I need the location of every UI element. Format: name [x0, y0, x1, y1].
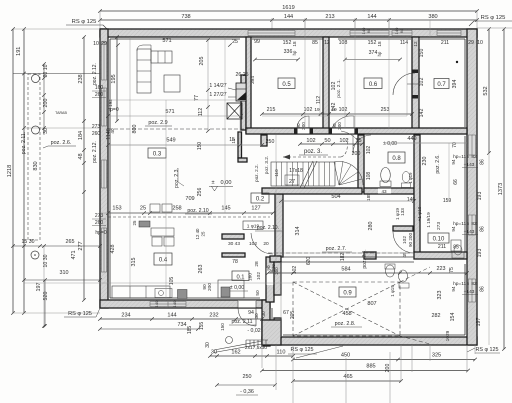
wall W2 left of 0.5 — [246, 37, 251, 133]
svg-text:94: 94 — [451, 226, 456, 232]
svg-text:211: 211 — [441, 40, 449, 46]
bottom 885 row — [262, 370, 468, 372]
svg-text:30: 30 — [254, 313, 260, 319]
svg-text:102: 102 — [331, 82, 337, 91]
wall H4 stub left — [270, 256, 281, 262]
wall H2b below 0.8 — [364, 188, 414, 194]
room label 0.2 — [251, 193, 269, 203]
svg-text:314: 314 — [295, 227, 301, 236]
door gap W6c — [267, 268, 274, 285]
svg-text:260: 260 — [92, 131, 101, 137]
svg-text:200: 200 — [271, 264, 276, 272]
terrace glass door line — [281, 256, 414, 258]
svg-text:1 14/27: 1 14/27 — [209, 83, 226, 89]
dim row y211 — [108, 212, 273, 214]
svg-text:532: 532 — [483, 86, 489, 95]
svg-text:182: 182 — [340, 253, 346, 262]
svg-text:571: 571 — [165, 109, 174, 115]
bottom row 234/144/232 — [100, 318, 262, 320]
svg-text:hp=115: hp=115 — [453, 221, 469, 227]
svg-text:260: 260 — [95, 220, 104, 226]
svg-text:30 43: 30 43 — [228, 241, 240, 247]
wall pantry top stub — [222, 234, 244, 239]
svg-text:94: 94 — [451, 159, 456, 165]
stairs walk line — [283, 156, 341, 158]
window left w2 — [102, 88, 107, 126]
wall W6b kitchen/hall — [275, 194, 283, 257]
svg-text:90 200: 90 200 — [408, 233, 413, 247]
svg-text:185: 185 — [187, 326, 193, 335]
svg-text:30: 30 — [205, 342, 211, 348]
door jambs H1 — [294, 128, 298, 134]
door arc room 0.5 — [297, 116, 309, 128]
svg-text:0.7: 0.7 — [437, 82, 446, 88]
svg-text:2x17,5x30: 2x17,5x30 — [245, 345, 267, 351]
svg-text:± 0,00: ± 0,00 — [230, 285, 244, 291]
window top w3 — [350, 31, 389, 36]
flue block — [236, 83, 246, 101]
svg-text:152: 152 — [283, 40, 292, 46]
wall W4 0.6/0.7 — [412, 37, 419, 130]
svg-text:RS φ 125: RS φ 125 — [291, 347, 314, 353]
svg-text:0.5: 0.5 — [282, 82, 291, 88]
svg-text:1140: 1140 — [106, 128, 112, 140]
svg-text:12: 12 — [324, 40, 330, 46]
stairs winder fan — [334, 161, 363, 185]
svg-text:205: 205 — [290, 311, 296, 320]
svg-text:112: 112 — [198, 108, 204, 117]
svg-text:0,00: 0,00 — [221, 180, 232, 186]
svg-text:211: 211 — [438, 244, 446, 250]
inner plaster lines — [110, 38, 240, 40]
radiator kitchen top — [139, 221, 150, 227]
svg-text:29: 29 — [468, 40, 474, 46]
svg-text:+143: +143 — [464, 289, 475, 295]
window right w1 — [469, 135, 476, 155]
svg-text:102: 102 — [339, 107, 348, 113]
svg-text:TARAB: TARAB — [55, 111, 67, 115]
svg-text:12: 12 — [413, 41, 418, 47]
svg-text:99: 99 — [254, 39, 260, 45]
dimension chain top segments — [100, 19, 477, 21]
svg-text:86: 86 — [480, 159, 486, 165]
svg-text:86: 86 — [480, 226, 486, 232]
svg-text:+1 φ10: +1 φ10 — [417, 206, 422, 221]
svg-text:159: 159 — [443, 198, 452, 204]
table and chairs — [151, 228, 174, 236]
svg-text:200: 200 — [337, 122, 342, 130]
svg-text:253: 253 — [381, 107, 390, 113]
svg-text:584: 584 — [341, 267, 350, 273]
svg-text:1218: 1218 — [7, 165, 13, 177]
chairs — [150, 204, 160, 212]
svg-text:1 19/19: 1 19/19 — [426, 212, 431, 228]
entry door arc — [255, 308, 257, 326]
svg-text:144: 144 — [284, 14, 293, 20]
svg-text:162: 162 — [231, 350, 240, 356]
window top w5 — [437, 31, 461, 36]
room label 0.4 — [154, 253, 172, 265]
svg-text:- 0,02: - 0,02 — [247, 328, 260, 334]
svg-text:273: 273 — [436, 222, 442, 230]
wall outer right — [467, 29, 477, 345]
wall H1 under top rooms — [246, 128, 467, 134]
svg-text:28: 28 — [254, 261, 260, 267]
svg-text:310: 310 — [60, 270, 69, 276]
svg-text:152: 152 — [368, 40, 377, 46]
svg-text:238: 238 — [78, 74, 84, 83]
svg-text:830: 830 — [33, 161, 39, 170]
svg-text:150: 150 — [419, 49, 425, 58]
svg-text:142: 142 — [331, 103, 337, 112]
svg-text:323: 323 — [437, 291, 443, 300]
svg-text:20: 20 — [263, 241, 269, 247]
svg-text:± 0,00: ± 0,00 — [383, 141, 397, 147]
room label 0.9 — [339, 287, 356, 297]
svg-text:110: 110 — [277, 350, 286, 356]
svg-text:102: 102 — [292, 266, 298, 275]
svg-text:258: 258 — [172, 206, 181, 212]
svg-text:RS φ 125: RS φ 125 — [476, 347, 499, 353]
svg-text:112: 112 — [316, 96, 322, 104]
stair break line — [304, 161, 317, 188]
wall H3 below 0.10 — [414, 252, 467, 259]
svg-text:282: 282 — [432, 313, 441, 319]
light extension verticals interior — [129, 37, 131, 300]
svg-text:471: 471 — [71, 251, 77, 260]
svg-text:150: 150 — [197, 142, 203, 151]
svg-text:197: 197 — [476, 318, 482, 327]
svg-text:325: 325 — [432, 353, 441, 359]
room 0.5/0.6 dims — [262, 113, 412, 115]
svg-text:127: 127 — [251, 206, 260, 212]
svg-text:215: 215 — [267, 107, 276, 113]
svg-text:30: 30 — [211, 350, 217, 356]
svg-text:709: 709 — [185, 196, 194, 202]
svg-text:poz. 2.11: poz. 2.11 — [232, 319, 253, 325]
svg-text:232: 232 — [209, 313, 218, 319]
svg-text:- 0,36: - 0,36 — [240, 389, 254, 395]
bottom extension verticals — [261, 345, 263, 368]
svg-text:26 25: 26 25 — [236, 72, 249, 78]
svg-text:428: 428 — [110, 245, 116, 254]
svg-text:10: 10 — [477, 40, 483, 46]
svg-text:poz. 2.10.: poz. 2.10. — [257, 225, 279, 231]
left chain 1218 — [12, 29, 14, 313]
svg-text:200: 200 — [301, 122, 306, 130]
room label 0.8 — [388, 152, 405, 163]
window top w2 — [248, 31, 295, 36]
svg-text:193: 193 — [477, 192, 483, 201]
svg-text:250: 250 — [266, 139, 275, 145]
fixtures lower small room — [386, 265, 395, 277]
svg-text:poz. 2.6.: poz. 2.6. — [51, 140, 72, 146]
door arc room 0.7 — [393, 73, 415, 95]
svg-text:0.1: 0.1 — [236, 275, 244, 281]
coffee table — [164, 75, 180, 92]
wall outer bottom-left — [100, 300, 270, 308]
svg-text:poz. 2.7.: poz. 2.7. — [326, 246, 347, 252]
wall H2 below stairs — [262, 188, 362, 194]
svg-text:43: 43 — [381, 189, 387, 194]
bottom 465 row — [293, 380, 401, 382]
svg-text:RS φ 125: RS φ 125 — [68, 311, 92, 317]
left chain segments — [23, 29, 25, 313]
stairs dim row — [300, 143, 362, 145]
bottom row 30/162/110 — [210, 355, 293, 357]
window left w4 — [102, 228, 107, 272]
svg-text:48: 48 — [78, 153, 84, 159]
svg-text:193: 193 — [477, 249, 483, 258]
svg-text:86: 86 — [480, 286, 486, 292]
svg-text:146: 146 — [407, 197, 416, 203]
wall W7 porch — [274, 262, 281, 295]
small chain at x44 — [43, 64, 45, 135]
svg-text:154: 154 — [450, 313, 456, 322]
svg-text:25: 25 — [201, 231, 206, 236]
hall door arc — [393, 232, 414, 253]
toilet 0.8 — [381, 168, 391, 183]
svg-text:66: 66 — [453, 179, 459, 185]
svg-text:10 30: 10 30 — [43, 254, 49, 267]
door gap H1 — [297, 129, 310, 134]
svg-text:133: 133 — [400, 208, 405, 216]
svg-text:hp=115: hp=115 — [453, 154, 469, 160]
svg-text:hp: hp — [292, 50, 297, 55]
svg-text:108: 108 — [339, 40, 348, 46]
svg-text:102: 102 — [256, 272, 262, 280]
svg-text:108: 108 — [366, 172, 372, 181]
svg-text:1 27/27: 1 27/27 — [209, 92, 226, 98]
wall pocket wall stub — [238, 158, 247, 162]
svg-text:78: 78 — [232, 259, 238, 265]
room label 0.10 — [428, 233, 449, 243]
svg-text:poz. 2.9: poz. 2.9 — [148, 120, 167, 126]
svg-text:260: 260 — [95, 92, 104, 98]
svg-text:142: 142 — [419, 109, 425, 118]
svg-text:140: 140 — [154, 300, 159, 307]
svg-text:145: 145 — [221, 206, 230, 212]
svg-text:1 φ19: 1 φ19 — [408, 172, 413, 184]
washbasin 0.8 — [402, 172, 410, 183]
svg-text:102: 102 — [306, 138, 315, 144]
room label 0.5 — [278, 78, 295, 89]
window bottomleft w1 — [150, 302, 186, 307]
svg-text:poz. 2.4.: poz. 2.4. — [362, 249, 368, 268]
right chain 1373 — [503, 29, 505, 349]
svg-text:807: 807 — [367, 301, 376, 307]
svg-text:15 30: 15 30 — [22, 239, 35, 245]
wall W6a stub corridor — [261, 135, 267, 146]
svg-text:0.10: 0.10 — [433, 237, 445, 243]
svg-text:0.3: 0.3 — [153, 152, 162, 158]
terrace X diagonals — [293, 282, 400, 336]
wall outer bottom-right — [262, 337, 477, 345]
terrace strip left (TARAB) — [28, 74, 40, 240]
svg-text:144: 144 — [367, 14, 376, 20]
svg-text:25: 25 — [140, 206, 146, 212]
svg-text:504: 504 — [331, 194, 340, 200]
svg-text:458: 458 — [342, 311, 351, 317]
svg-text:620: 620 — [306, 257, 312, 266]
bottom 450/325 row — [293, 359, 475, 361]
svg-text:160: 160 — [248, 273, 254, 281]
svg-text:191: 191 — [16, 47, 22, 56]
svg-text:RS φ 125: RS φ 125 — [481, 15, 506, 21]
wall W6c kitchen/porch — [266, 257, 274, 302]
svg-text:poz. 2.11.: poz. 2.11. — [21, 132, 27, 154]
wall outer step — [262, 300, 270, 346]
dimension chain top total 1619 — [100, 10, 477, 12]
svg-text:0.9: 0.9 — [343, 291, 352, 297]
svg-text:200: 200 — [43, 99, 49, 108]
svg-text:263: 263 — [198, 265, 204, 274]
svg-text:0.8: 0.8 — [392, 156, 401, 162]
svg-text:223: 223 — [437, 266, 446, 272]
extension lines top — [99, 11, 101, 29]
svg-text:25: 25 — [232, 39, 238, 45]
room label 0.6 — [364, 78, 382, 89]
svg-text:poz. 3.: poz. 3. — [304, 149, 322, 155]
svg-text:25: 25 — [132, 220, 137, 225]
svg-text:273: 273 — [95, 213, 104, 219]
right chain 532 — [488, 29, 490, 153]
wall H3 stub — [364, 252, 376, 259]
svg-text:+143: +143 — [464, 229, 475, 235]
svg-text:82: 82 — [471, 281, 477, 287]
svg-text:30 10: 30 10 — [43, 64, 49, 77]
svg-text:102: 102 — [419, 78, 425, 87]
wall W3 0.5/0.6 — [323, 37, 329, 130]
window top w4 — [392, 31, 412, 36]
svg-text:315: 315 — [131, 258, 137, 267]
wall pantry wall — [222, 253, 245, 257]
svg-text:64: 64 — [366, 28, 371, 33]
svg-text:140: 140 — [172, 300, 177, 307]
svg-text:19: 19 — [314, 107, 320, 113]
svg-text:30: 30 — [261, 311, 267, 317]
svg-text:394: 394 — [250, 76, 256, 84]
terrace outline dashed — [293, 282, 400, 336]
window right w2 — [469, 215, 476, 235]
svg-text:94: 94 — [248, 310, 254, 316]
svg-text:394: 394 — [452, 80, 458, 89]
window left w3 — [102, 160, 107, 188]
inner left chain 238/184/48/277 — [83, 37, 85, 300]
svg-text:82: 82 — [471, 221, 477, 227]
svg-text:85: 85 — [312, 40, 318, 46]
svg-text:0.6: 0.6 — [369, 82, 378, 88]
svg-text:poz. 2.2.: poz. 2.2. — [254, 164, 259, 182]
svg-text:75: 75 — [449, 267, 455, 273]
chimney shaft — [227, 103, 242, 119]
window right w3 — [469, 279, 476, 302]
svg-text:230: 230 — [422, 157, 428, 166]
svg-text:738: 738 — [181, 14, 190, 20]
svg-text:102: 102 — [339, 138, 348, 144]
wall outer top — [100, 29, 477, 37]
light extension horizontals interior — [108, 99, 240, 101]
room label 0.7 — [434, 79, 449, 89]
svg-text:195: 195 — [111, 74, 117, 83]
svg-text:153: 153 — [112, 206, 121, 212]
dashed level line — [108, 128, 248, 130]
svg-text:29: 29 — [101, 41, 107, 47]
door arc 0.8 — [353, 135, 371, 153]
svg-text:82: 82 — [471, 154, 477, 160]
svg-text:885: 885 — [366, 364, 375, 370]
svg-text:67: 67 — [283, 310, 289, 316]
svg-text:poz. 3.2.: poz. 3.2. — [264, 156, 270, 174]
kitchen counter — [112, 286, 170, 298]
ramp lines — [214, 341, 262, 350]
small dot room 0.7 — [456, 61, 458, 63]
svg-text:50: 50 — [255, 290, 261, 296]
wall pocket wall vertical — [238, 132, 242, 158]
porch steps — [245, 340, 247, 346]
svg-text:hp=115: hp=115 — [453, 281, 469, 287]
svg-text:265: 265 — [66, 239, 75, 245]
svg-text:185: 185 — [366, 193, 371, 201]
svg-text:450: 450 — [341, 353, 350, 359]
wall W4ext — [414, 135, 420, 253]
svg-text:64: 64 — [399, 28, 404, 33]
svg-text:+143: +143 — [464, 162, 475, 168]
svg-text:105: 105 — [169, 277, 175, 286]
svg-text:hp: hp — [377, 51, 382, 56]
svg-text:30: 30 — [43, 128, 49, 134]
svg-text:0.2: 0.2 — [256, 197, 265, 203]
stairs straight flight — [271, 162, 335, 186]
svg-text:380: 380 — [428, 14, 437, 20]
fixtures 0.10 — [452, 252, 464, 258]
poz 2.7 dashed — [268, 252, 412, 254]
downpipe circles — [32, 75, 40, 83]
svg-text:150: 150 — [220, 323, 225, 331]
svg-text:poz. 2.12.: poz. 2.12. — [92, 141, 98, 163]
svg-text:250: 250 — [243, 374, 252, 380]
svg-text:poz. 2.8.: poz. 2.8. — [335, 321, 356, 327]
svg-text:1373: 1373 — [498, 183, 504, 195]
entry door gap — [238, 301, 256, 308]
wall W7b porch lower — [274, 318, 281, 338]
svg-text:256: 256 — [197, 188, 203, 197]
wall porch corner — [262, 320, 281, 345]
svg-text:1 φ19: 1 φ19 — [390, 285, 395, 297]
svg-text:200: 200 — [207, 283, 213, 291]
svg-text:hp=0: hp=0 — [95, 230, 106, 236]
svg-text:poz. 2.12.: poz. 2.12. — [92, 63, 98, 85]
svg-text:465: 465 — [343, 374, 352, 380]
window left w1 — [102, 42, 107, 80]
svg-text:1029: 1029 — [445, 330, 451, 341]
svg-text:27: 27 — [289, 179, 295, 185]
door arc room 0.6 — [332, 116, 354, 128]
svg-text:RS φ 125: RS φ 125 — [72, 19, 97, 25]
wall outer left — [100, 29, 108, 308]
svg-text:poz. 2.6.: poz. 2.6. — [435, 154, 441, 173]
terrace top dim — [268, 272, 467, 274]
svg-text:15: 15 — [229, 137, 235, 143]
svg-text:10: 10 — [93, 41, 99, 47]
wall W1 living/0.5 stub — [241, 75, 246, 130]
room label 0.3 — [148, 148, 166, 158]
svg-text:poz. 2.3.: poz. 2.3. — [174, 168, 180, 188]
svg-text:734: 734 — [178, 322, 187, 328]
svg-text:144: 144 — [167, 313, 176, 319]
sofa — [137, 49, 151, 93]
svg-text:110: 110 — [274, 169, 279, 177]
